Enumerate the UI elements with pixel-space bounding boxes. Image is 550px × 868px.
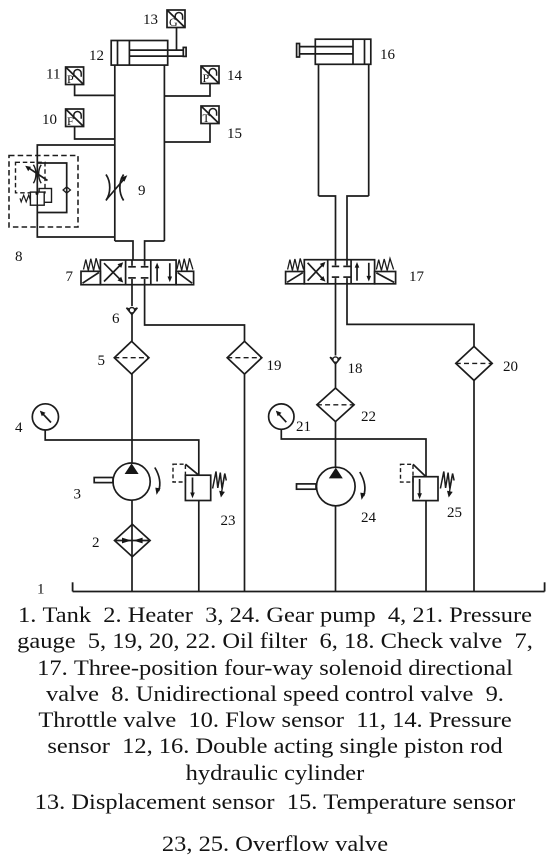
left solenoid xyxy=(81,271,100,284)
wire pipe bottom left xyxy=(115,241,133,260)
svg-text:3: 3 xyxy=(74,487,82,503)
svg-text:5: 5 xyxy=(98,353,106,369)
svg-text:10: 10 xyxy=(42,112,57,128)
heater 2 xyxy=(115,524,151,556)
svg-text:8: 8 xyxy=(15,249,23,265)
svg-text:18: 18 xyxy=(348,361,363,377)
svg-text:24: 24 xyxy=(361,510,377,526)
svg-text:F: F xyxy=(67,114,74,128)
right solenoid xyxy=(375,272,396,284)
check valve 18 xyxy=(330,357,341,364)
wire sensor10 xyxy=(75,127,115,140)
check diamond in 8 xyxy=(63,187,70,193)
pressure sensor 14 xyxy=(201,66,219,85)
svg-text:14: 14 xyxy=(227,68,243,84)
gear pump 24 xyxy=(297,467,366,506)
svg-text:2: 2 xyxy=(92,535,100,551)
wire valve17 port2 to filter 20 xyxy=(347,284,474,347)
oil filter 20 xyxy=(456,346,492,380)
svg-text:G: G xyxy=(169,15,178,29)
right square arrows xyxy=(156,266,158,282)
left solenoid xyxy=(286,272,305,284)
wire pump3 to heater2 xyxy=(131,500,133,524)
wire pipe16 bottom left xyxy=(319,196,336,260)
wire check18 to filter22 xyxy=(335,364,337,388)
throttle valve 9 xyxy=(106,175,127,201)
wire valve25 to tank xyxy=(425,501,427,592)
svg-text:P: P xyxy=(67,72,74,86)
middle square blocked ports xyxy=(131,260,133,266)
svg-text:7: 7 xyxy=(66,269,74,285)
svg-text:11: 11 xyxy=(46,67,60,83)
wire heater2 to tank xyxy=(131,557,133,592)
relief element in 8 xyxy=(39,189,51,203)
oil filter 5 xyxy=(114,341,149,374)
temperature sensor 15 xyxy=(201,106,219,125)
oil filter 19 xyxy=(227,341,262,374)
wire pipe bottom right xyxy=(145,241,165,260)
inner loop xyxy=(37,163,66,213)
svg-text:25: 25 xyxy=(447,505,462,521)
wire gauge21 to relief 25 xyxy=(281,429,426,476)
throttle in 8 xyxy=(33,165,36,183)
wire filter5 to pump3 xyxy=(131,374,133,463)
flow sensor 10 xyxy=(66,109,84,128)
wire sensor13 to rod xyxy=(176,28,178,51)
legend text xyxy=(0,602,550,786)
check valve 6 xyxy=(126,308,137,315)
svg-text:19: 19 xyxy=(267,358,282,374)
tank 1 xyxy=(73,582,545,591)
wire pump24 to tank xyxy=(335,506,337,592)
displacement sensor 13 xyxy=(167,10,185,29)
wire sensor15 xyxy=(164,124,210,143)
loop xyxy=(37,145,115,237)
gear pump 3 xyxy=(94,463,160,500)
cylinder 12 xyxy=(111,41,186,66)
pressure gauge 4 xyxy=(32,404,58,430)
overflow valve 25 xyxy=(401,464,455,500)
svg-text:22: 22 xyxy=(361,409,376,425)
wire valve23 to tank xyxy=(198,501,200,592)
wire right pipe of cylinder 12 xyxy=(163,65,165,241)
svg-text:12: 12 xyxy=(89,48,104,64)
directional valve 17 xyxy=(286,259,396,284)
pressure sensor 11 xyxy=(66,67,84,86)
right solenoid xyxy=(176,271,194,284)
wire check6 to filter5 xyxy=(131,315,133,342)
wire left pipe of cylinder 16 xyxy=(318,64,320,196)
wire valve17 port1 down xyxy=(335,284,337,356)
cylinder 16 xyxy=(297,39,371,64)
wire valve7 port1 down xyxy=(131,285,133,306)
directional valve 7 xyxy=(81,258,194,284)
wire valve7 port2 to filter 19 xyxy=(145,285,245,342)
svg-text:6: 6 xyxy=(112,311,120,327)
wire gauge4 to relief 23 xyxy=(45,430,199,476)
wire pipe16 bottom right xyxy=(347,196,369,260)
svg-text:1: 1 xyxy=(37,582,45,598)
svg-text:4: 4 xyxy=(15,420,23,436)
left square cross arrows xyxy=(104,264,121,281)
svg-text:23: 23 xyxy=(221,513,236,529)
wire left pipe of cylinder 12 xyxy=(114,65,116,241)
svg-text:17: 17 xyxy=(409,269,425,285)
wire sensor11 xyxy=(75,85,115,96)
wire sensor14 xyxy=(164,84,210,97)
wire filter20 to tank xyxy=(473,380,475,591)
svg-text:9: 9 xyxy=(138,183,146,199)
svg-text:13: 13 xyxy=(143,12,158,28)
svg-text:20: 20 xyxy=(503,359,518,375)
overflow valve 23 xyxy=(173,464,226,500)
wire right pipe of cylinder 16 xyxy=(368,64,370,196)
oil filter 22 xyxy=(317,388,354,422)
pressure gauge 21 xyxy=(269,404,294,429)
wire filter19 to tank xyxy=(244,374,246,591)
svg-text:16: 16 xyxy=(380,47,396,63)
svg-text:21: 21 xyxy=(296,419,311,435)
wire filter22 to pump24 xyxy=(335,422,337,468)
svg-text:15: 15 xyxy=(227,126,242,142)
speed control valve 8 xyxy=(9,145,115,237)
